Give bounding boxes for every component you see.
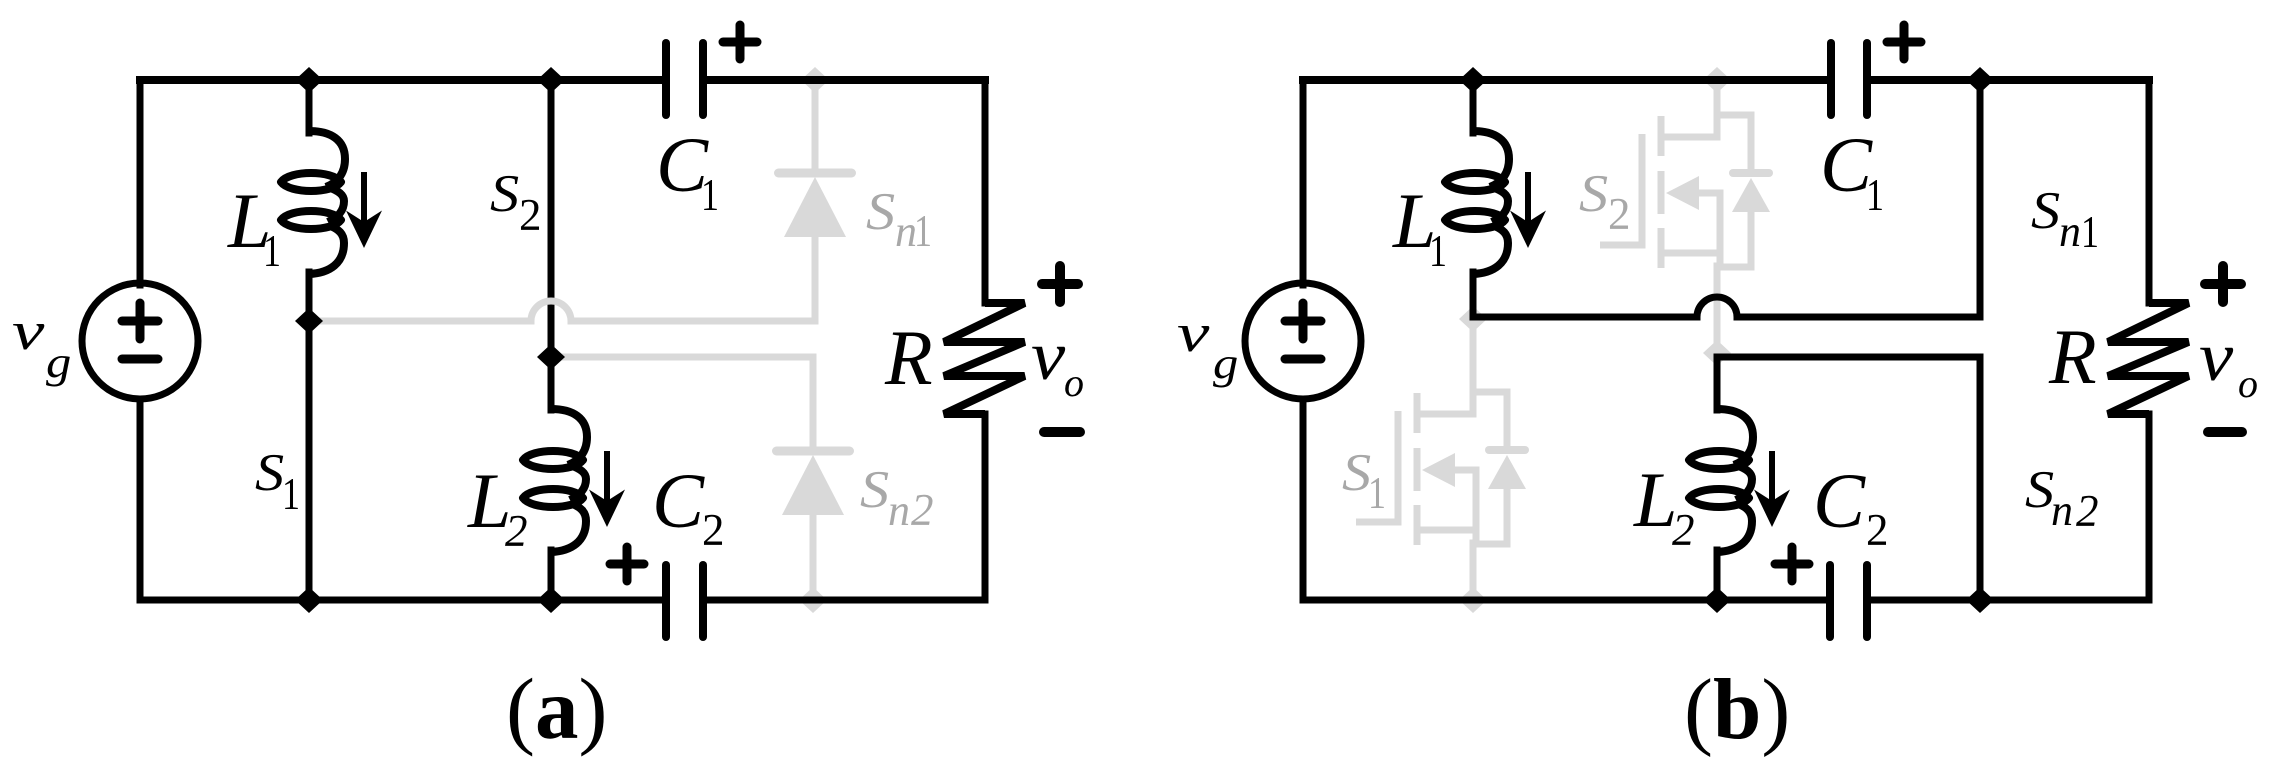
node diamond: bottom rail / L2 — [537, 587, 565, 613]
node diamond: top rail / C1 right / link — [1966, 67, 1994, 93]
capacitor C1 right plate — [1863, 43, 1871, 115]
svg-text:S: S — [490, 164, 519, 223]
gray wire: Sn2 branch lower segment — [810, 511, 817, 600]
gray wire: Sn1 branch lower segment — [812, 233, 819, 321]
inductor L2 coil — [1689, 409, 1753, 552]
wire: left branch from vg to bottom rail — [137, 399, 144, 600]
svg-text:1: 1 — [1866, 170, 1884, 220]
inductor L1 coil — [1445, 131, 1509, 274]
wire: bottom rail right of C2 — [706, 597, 985, 604]
wire: right branch lower (Sn2) — [2146, 414, 2153, 600]
svg-text:o: o — [1064, 360, 1084, 405]
vg minus sign — [1285, 355, 1321, 364]
svg-text:2: 2 — [519, 190, 542, 240]
resistor R — [2108, 303, 2189, 414]
L2 current arrow — [589, 451, 625, 527]
capacitor C1 left plate — [662, 43, 670, 115]
wire: L1 top lead — [1470, 80, 1477, 133]
svg-text:R: R — [2048, 313, 2097, 400]
gray diode Sn1 — [779, 173, 852, 237]
L1 current arrow — [1510, 172, 1546, 248]
wire: right branch upper (Sn1) — [2146, 80, 2153, 303]
svg-text:v: v — [1031, 316, 1066, 394]
svg-text:2: 2 — [911, 485, 934, 535]
svg-text:n: n — [2051, 486, 2073, 535]
capacitor C2 right plate — [699, 565, 707, 637]
resistor R — [944, 303, 1025, 414]
capacitor C2 right plate — [1863, 565, 1871, 637]
wire: top rail left of C1 — [1303, 76, 1829, 84]
svg-text:1: 1 — [263, 226, 281, 276]
wire: L2 top lead — [548, 357, 555, 410]
MOSFET S2 — [1600, 115, 1770, 268]
plus sign of v_o — [2205, 266, 2241, 302]
C1 polarity plus — [1887, 25, 1921, 59]
vg plus sign — [122, 303, 158, 339]
gray wire: S2 drain lead — [1714, 80, 1721, 118]
capacitor C2 left plate — [662, 565, 670, 637]
svg-text:S: S — [255, 443, 284, 502]
gray node diamond S1 drain at L1 bottom node — [1459, 306, 1487, 332]
svg-text:S: S — [2025, 460, 2054, 519]
wire: horizontal link with hop over S2 source, up to C1 right node — [1473, 84, 1980, 317]
C2 polarity plus — [610, 547, 644, 581]
svg-text:v: v — [12, 301, 45, 361]
node diamond: L1 / S1 / gray wire — [295, 308, 323, 334]
vg plus sign — [1285, 303, 1321, 339]
svg-text:(a): (a) — [506, 660, 607, 757]
svg-text:n: n — [888, 486, 910, 535]
svg-text:C: C — [652, 457, 705, 544]
svg-text:2: 2 — [1866, 505, 1889, 555]
switch S1 (closed, wire) — [306, 321, 313, 600]
gray wire: Sn1 branch upper segment — [812, 80, 819, 173]
svg-text:S: S — [1342, 443, 1371, 502]
svg-text:(b): (b) — [1684, 661, 1790, 758]
svg-text:1: 1 — [2081, 207, 2099, 257]
svg-text:1: 1 — [914, 206, 932, 256]
plus sign of v_o — [1042, 266, 1078, 302]
svg-text:g: g — [46, 339, 71, 387]
svg-text:n: n — [2059, 207, 2081, 256]
svg-text:R: R — [884, 314, 933, 401]
wire: L1 top lead — [306, 80, 313, 133]
gray node diamond S2 source at L2 top node — [1703, 340, 1731, 366]
minus sign of v_o — [1044, 427, 1080, 437]
svg-text:1: 1 — [282, 469, 300, 519]
wire: top rail left of C1 — [140, 76, 664, 84]
FIGURE (a): diode-rectified converter — [12, 25, 1084, 757]
wire: left branch from top rail to source vg — [137, 80, 144, 285]
wire: bottom rail right of C2 — [1870, 597, 2149, 604]
svg-text:C: C — [1820, 121, 1873, 208]
wire: left branch from top rail to source vg — [1300, 80, 1307, 285]
voltage source vg circle — [82, 283, 198, 399]
wire: L1 bottom lead — [1470, 272, 1477, 317]
svg-text:1: 1 — [1429, 226, 1447, 276]
wire: top rail right of C1 — [705, 76, 985, 84]
L1 current arrow — [346, 172, 382, 248]
C2 polarity plus — [1775, 547, 1809, 581]
svg-text:2: 2 — [702, 505, 725, 555]
C1 polarity plus — [723, 25, 757, 59]
node diamond: top rail / S2 — [537, 67, 565, 93]
gray diode Sn2 — [777, 451, 850, 515]
node diamond: bottom rail / L2 — [1703, 587, 1731, 613]
inductor L1 coil — [281, 131, 345, 274]
svg-text:1: 1 — [1368, 468, 1386, 518]
wire: right branch lower — [982, 414, 989, 600]
voltage source vg circle — [1245, 283, 1361, 399]
node diamond: bottom rail / C2 right / link — [1966, 587, 1994, 613]
wire: top rail right of C1 — [1869, 76, 2149, 84]
gray wire: S1 source lead — [1470, 543, 1477, 600]
gray node diamond at Sn1 anode / top rail — [801, 67, 829, 93]
svg-text:2: 2 — [2076, 486, 2099, 536]
MOSFET S1 — [1356, 392, 1526, 545]
svg-text:S: S — [866, 182, 895, 241]
inductor L2 coil — [523, 409, 587, 552]
wire: right branch upper — [982, 80, 989, 303]
node diamond: S2 / L2 / gray wire — [537, 344, 565, 370]
svg-text:1: 1 — [701, 170, 719, 220]
gray wire: Sn2 horizontal from S2/L2 node — [551, 354, 813, 361]
L2 current arrow — [1754, 451, 1790, 527]
gray node diamond at Sn2 cathode / bottom rail — [799, 587, 827, 613]
wire: L1 bottom lead — [306, 272, 313, 321]
svg-text:S: S — [2031, 181, 2060, 240]
node diamond: top rail / L1 — [1459, 67, 1487, 93]
vg minus sign — [122, 355, 158, 364]
node diamond: top rail / L1 — [295, 67, 323, 93]
svg-text:g: g — [1213, 340, 1238, 388]
svg-text:L: L — [1633, 456, 1677, 543]
svg-text:2: 2 — [505, 506, 528, 556]
wire: bottom rail left of C2 — [1303, 597, 1827, 604]
capacitor C1 right plate — [699, 43, 707, 115]
wire: bottom rail left of C2 — [140, 597, 663, 604]
node diamond: bottom rail / S1 — [295, 587, 323, 613]
wire: horizontal link from L2 top down to bottom rail node — [1717, 357, 1980, 600]
minus sign of v_o — [2208, 427, 2242, 437]
capacitor C1 left plate — [1827, 43, 1835, 115]
svg-text:v: v — [1177, 303, 1210, 363]
wire: L2 bottom lead — [1714, 550, 1721, 600]
svg-text:o: o — [2238, 361, 2258, 406]
gray node diamond S2 drain at top rail — [1703, 67, 1731, 93]
svg-text:2: 2 — [1608, 189, 1631, 239]
gray node diamond S1 source at bottom rail — [1459, 587, 1487, 613]
gray wire: S2 source lead — [1714, 266, 1721, 353]
svg-text:S: S — [1579, 164, 1608, 223]
wire: L2 bottom lead — [548, 550, 555, 600]
wire: left branch from vg to bottom rail — [1300, 399, 1307, 600]
capacitor C2 left plate — [1826, 565, 1834, 637]
svg-text:S: S — [860, 460, 889, 519]
gray wire: Sn2 branch upper segment — [810, 357, 817, 451]
switch S2 (closed, wire) — [548, 80, 555, 357]
gray wire: horizontal from L1/S1 node with hop over S2 — [309, 301, 815, 321]
svg-text:C: C — [1813, 457, 1866, 544]
wire: L2 top lead — [1714, 357, 1721, 410]
svg-text:v: v — [2199, 317, 2234, 395]
svg-text:2: 2 — [1672, 505, 1695, 555]
FIGURE (b): MOSFET-implemented converter — [1177, 25, 2258, 758]
gray wire: S1 drain lead — [1470, 319, 1477, 395]
